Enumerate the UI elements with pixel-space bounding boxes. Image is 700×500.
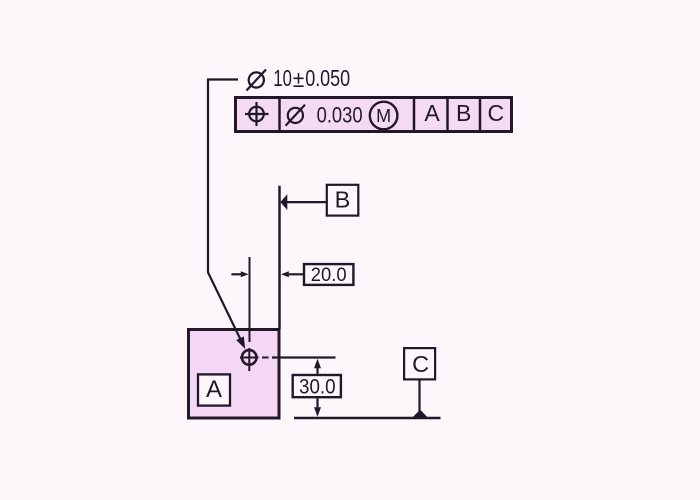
svg-text:C: C (412, 351, 429, 377)
svg-text:A: A (206, 376, 222, 403)
svg-text:±: ± (293, 66, 305, 92)
svg-text:M: M (376, 106, 391, 126)
svg-text:B: B (456, 100, 471, 126)
svg-text:B: B (335, 187, 351, 213)
svg-text:0.030: 0.030 (317, 103, 363, 128)
svg-text:0.050: 0.050 (305, 65, 350, 91)
svg-text:10: 10 (273, 65, 292, 91)
svg-text:C: C (487, 100, 504, 126)
svg-text:A: A (424, 100, 440, 126)
svg-text:30.0: 30.0 (299, 376, 336, 399)
svg-text:20.0: 20.0 (311, 265, 347, 286)
